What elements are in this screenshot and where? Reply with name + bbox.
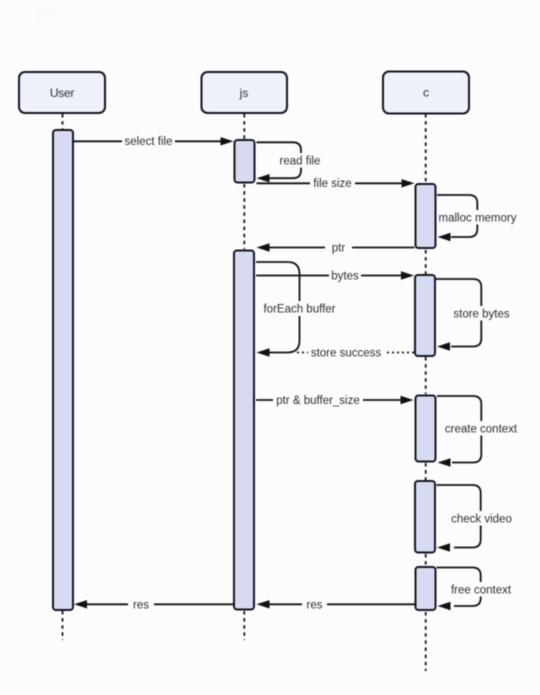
message select file xyxy=(74,134,234,148)
svg-text:file size: file size xyxy=(313,178,351,190)
lifeline c xyxy=(425,114,427,671)
svg-text:res: res xyxy=(133,600,149,612)
svg-text:User: User xyxy=(50,86,74,100)
self message read file xyxy=(257,142,324,182)
lifeline User xyxy=(62,114,64,640)
svg-text:select file: select file xyxy=(125,136,173,148)
self message create context xyxy=(437,396,519,467)
self message store bytes xyxy=(436,279,511,351)
svg-text:create context: create context xyxy=(445,424,518,436)
activation bar c 1 xyxy=(416,184,436,248)
svg-text:free context: free context xyxy=(451,585,512,597)
actor box js xyxy=(202,72,288,113)
activation bar c 2 xyxy=(415,275,435,356)
activation bar js 2 xyxy=(234,251,254,610)
svg-text:res: res xyxy=(307,600,323,612)
message bytes xyxy=(256,269,414,283)
self message free context xyxy=(437,568,514,611)
message ptr & buffer_size xyxy=(256,393,414,407)
svg-text:malloc memory: malloc memory xyxy=(439,213,517,225)
actor box c xyxy=(383,72,469,114)
message file size xyxy=(257,176,415,190)
activation bar c 3 xyxy=(416,396,436,462)
activation bar User xyxy=(53,130,73,610)
svg-text:store success: store success xyxy=(311,348,382,360)
self message forEach buffer xyxy=(256,262,337,357)
svg-text:bytes: bytes xyxy=(331,271,359,283)
svg-text:read file: read file xyxy=(280,156,321,168)
activation bar c 5 xyxy=(416,567,436,610)
actor box User xyxy=(19,72,105,113)
self message check video xyxy=(437,485,513,552)
message ptr xyxy=(257,241,415,255)
activation bar js 1 xyxy=(235,140,255,183)
message res js to User xyxy=(74,598,233,612)
svg-text:ptr: ptr xyxy=(332,243,346,255)
activation bar c 4 xyxy=(415,481,435,553)
dotted return store success xyxy=(296,346,414,360)
self message malloc memory xyxy=(437,195,518,241)
faint smudge top-left xyxy=(35,9,57,18)
svg-text:ptr & buffer_size: ptr & buffer_size xyxy=(276,395,360,407)
svg-text:c: c xyxy=(423,86,429,100)
svg-text:store bytes: store bytes xyxy=(453,309,509,321)
svg-text:js: js xyxy=(239,86,249,100)
svg-text:check video: check video xyxy=(451,514,512,526)
svg-text:forEach buffer: forEach buffer xyxy=(263,304,335,316)
message res c to js xyxy=(257,598,415,612)
lifeline js xyxy=(243,114,245,640)
